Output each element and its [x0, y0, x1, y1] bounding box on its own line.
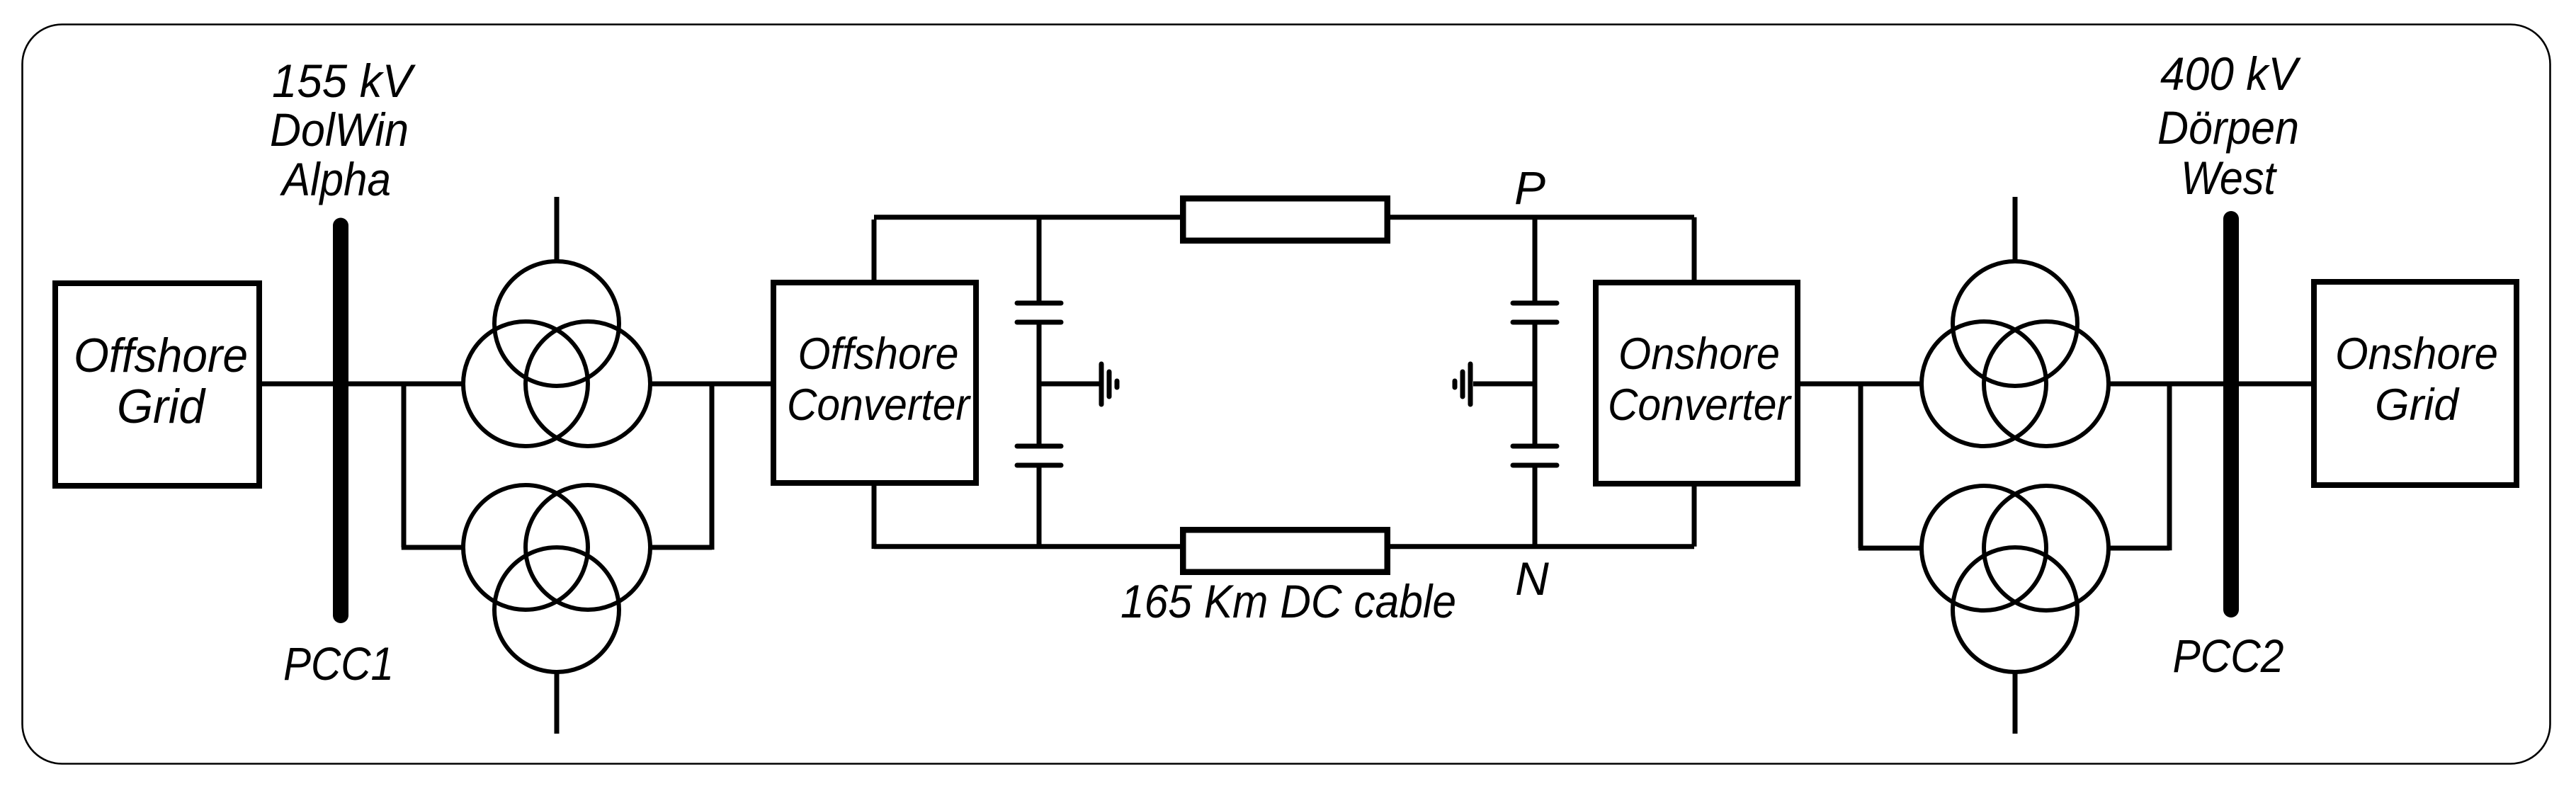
svg-text:Offshore: Offshore: [74, 329, 248, 382]
Offshore Grid block: [55, 283, 259, 486]
wire T1b output: [650, 545, 712, 550]
wire capacitor midpoint onshore: [1533, 322, 1538, 446]
svg-text:P: P: [1514, 161, 1545, 214]
wire N rail left segment: [874, 544, 1181, 549]
transformer T1a upper (three-winding): [463, 197, 650, 446]
wire T2b output: [2109, 546, 2169, 551]
capacitor C4 lower onshore: [1513, 446, 1557, 549]
wire converter bottom to N rail: [872, 483, 877, 549]
transformer T2a upper (three-winding): [1922, 197, 2109, 446]
svg-text:400 kV: 400 kV: [2160, 47, 2302, 100]
wire P rail into Onshore Converter: [1692, 217, 1697, 283]
Onshore Converter block: [1596, 283, 1798, 484]
wire branch down to lower transformer: [402, 382, 407, 547]
capacitor C3 upper onshore: [1513, 217, 1557, 322]
wire N rail right segment: [1390, 544, 1694, 549]
capacitor C1 upper offshore: [1017, 217, 1061, 322]
busbar PCC2: [2223, 219, 2239, 610]
busbar PCC1: [333, 226, 348, 616]
svg-text:Offshore: Offshore: [798, 329, 959, 379]
svg-text:PCC1: PCC1: [283, 637, 394, 690]
wire P rail left segment: [874, 215, 1181, 220]
wire branch down onshore: [1859, 382, 1863, 548]
wire N rail into Onshore Converter: [1692, 484, 1697, 547]
wire Offshore Grid to transformers: [259, 382, 463, 387]
svg-text:DolWin: DolWin: [270, 103, 409, 156]
svg-text:Alpha: Alpha: [279, 153, 391, 205]
ground onshore: [1455, 364, 1470, 404]
svg-text:Converter: Converter: [787, 380, 972, 430]
ground offshore: [1101, 364, 1117, 404]
svg-text:Onshore: Onshore: [1618, 329, 1780, 379]
wire to lower transformer T2b input: [1859, 546, 1922, 551]
Offshore Converter block: [773, 283, 976, 483]
wire converter top to P rail: [872, 220, 877, 283]
svg-text:Converter: Converter: [1608, 380, 1793, 430]
label 155 kV DolWin Alpha: [270, 55, 416, 205]
wire to ground offshore: [1039, 382, 1099, 387]
wire T2a output to Onshore Grid: [2109, 382, 2317, 387]
svg-text:Onshore: Onshore: [2335, 329, 2498, 379]
DC cable element bottom: [1183, 530, 1388, 572]
transformer T2b lower (three-winding): [1922, 486, 2109, 734]
wire P rail right segment: [1390, 215, 1694, 220]
wire capacitor midpoint offshore: [1037, 322, 1042, 446]
transformer T1b lower (three-winding): [463, 485, 650, 734]
Onshore Grid block: [2314, 282, 2517, 485]
svg-text:Grid: Grid: [2375, 380, 2460, 430]
svg-text:Grid: Grid: [117, 380, 206, 433]
DC cable element top: [1183, 198, 1388, 241]
svg-text:Dörpen: Dörpen: [2157, 101, 2299, 154]
wire to lower transformer T1b input: [402, 545, 463, 550]
label 400 kV Doerpen West: [2157, 47, 2302, 204]
wire junction up to main wire onshore: [2167, 384, 2172, 550]
wire junction up to main wire: [710, 384, 715, 550]
capacitor C2 lower offshore: [1017, 446, 1061, 549]
svg-text:N: N: [1515, 552, 1549, 605]
wire Onshore Converter to transformers: [1798, 382, 1922, 387]
svg-text:155 kV: 155 kV: [272, 55, 416, 107]
wire to ground onshore: [1473, 382, 1535, 387]
svg-text:West: West: [2181, 152, 2277, 204]
wire T1a output to Offshore Converter: [650, 382, 773, 387]
svg-text:PCC2: PCC2: [2173, 630, 2284, 682]
svg-text:165 Km DC cable: 165 Km DC cable: [1120, 575, 1456, 627]
